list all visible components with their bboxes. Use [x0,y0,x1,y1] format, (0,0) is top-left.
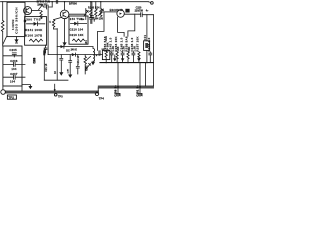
transistor T2 [60,10,69,19]
svg-text:C248 1.0: C248 1.0 [147,37,151,51]
strip box V107 [69,16,88,44]
crystal CF1 [144,41,150,51]
diode V104 on bus [72,53,75,56]
svg-text:R241 100K: R241 100K [25,28,42,32]
varicap VD1 [84,9,89,20]
diode V102 [71,22,87,26]
wire T2 emitter down [64,19,66,43]
capacitor C209 on rail [56,0,57,3]
transistor T3 [117,10,124,17]
terminal TP4 [95,92,98,95]
svg-text:TP2: TP2 [8,96,14,100]
wire top supply rail [1,1,149,3]
wire feed x145 [144,63,146,87]
junction dots top rail [52,1,53,2]
ground under L201 [14,39,18,42]
ground arrow b [122,56,124,58]
ground under C212 [59,72,63,75]
svg-text:R257 10K: R257 10K [136,36,140,52]
svg-text:R244 100: R244 100 [93,18,104,21]
coil L210 [93,47,95,62]
wire step x135 [128,14,135,36]
capacitor C207 [14,75,16,79]
svg-text:DC: DC [66,50,70,53]
trimmer arrow L210 [86,63,91,69]
wire tap x54.7 [54,84,56,91]
diode D201 [39,4,44,9]
wire left border [2,2,4,46]
capacitor C215 above box [90,2,93,24]
capacitor C205 [12,53,16,57]
terminal top right [151,2,154,5]
svg-text:104: 104 [10,80,15,84]
transistor T1 [24,7,32,15]
diode V101 [27,22,45,26]
resistor R205 emitter [52,17,61,29]
node blob x44 [43,50,45,55]
resistor R245 [95,2,97,17]
ground under L210 [91,62,95,65]
resistor R251 [84,55,86,74]
svg-text:C206: C206 [10,59,18,63]
label TP2 [7,95,16,99]
svg-text:C203 390/CH: C203 390/CH [15,7,19,34]
svg-text:104: 104 [11,67,16,71]
svg-text:BF506: BF506 [69,2,77,6]
svg-text:220/1W: 220/1W [135,9,144,12]
wire box to rail [3,86,22,91]
resistor R247 trimmer [100,2,102,17]
svg-text:C216 10K: C216 10K [70,33,84,37]
terminal TP2 circle [1,90,6,95]
shield box L201 [7,2,25,36]
wire feed x140 [139,63,141,97]
svg-text:240 TVS: 240 TVS [70,17,83,21]
wire to rail [51,2,53,7]
wire rail connector [97,88,99,91]
svg-text:240 K: 240 K [71,48,78,51]
wire mid vertical x48 [47,9,49,55]
capacitor C212 [60,55,63,73]
wire T1 collector [32,10,40,12]
box U3 [102,50,109,59]
wire bus y54.6 [48,54,102,56]
resistor R202 [40,11,42,19]
wire coil tail [16,37,18,40]
wire step x117 [118,17,125,36]
capacitor C217 [69,55,72,75]
resistor R243 [90,2,92,17]
svg-text:C208: C208 [34,57,37,63]
junction dot mid rail [54,89,56,91]
resistor R242 [30,39,43,42]
svg-text:C210 104: C210 104 [70,28,84,32]
wire x44 down [43,49,45,81]
capacitor C214 [89,17,92,24]
chassis rail right [98,86,153,88]
svg-text:C21 18: C21 18 [45,63,48,72]
chassis rail left [5,91,98,93]
wire divider row1 [3,55,22,57]
wire to T3 base [103,11,117,13]
ground arrow c [138,56,140,59]
wire stub to ground [22,85,30,87]
svg-text:R252: R252 [100,50,102,56]
wire T2 collector to rail [64,2,66,10]
wire T2 base [69,13,86,15]
capacitor C211 below box [44,45,47,53]
wire row C206 [3,63,25,65]
capacitor C206 [14,62,16,66]
svg-text:C213 18: C213 18 [78,55,80,64]
svg-text:1.0K: 1.0K [67,68,69,73]
svg-text:V106 107B: V106 107B [25,33,42,37]
terminal TP3 [54,93,57,96]
strip box V106 [25,17,47,46]
junction dots mid rail [106,62,107,63]
resistor R246 [73,39,85,42]
ground under C217 [68,75,72,78]
svg-text:TP4: TP4 [99,96,105,100]
svg-text:R248 R24: R248 R24 [88,6,100,9]
capacitor C204 [44,5,53,9]
svg-text:C207: C207 [10,72,18,76]
ground arrow a [114,55,116,59]
wire row C207 [3,76,25,78]
wire feed x118 [117,63,119,97]
node junction on box edge [24,20,26,22]
svg-text:0.02/CH: 0.02/CH [13,19,15,30]
capacitor box left [3,46,22,86]
wire mid tap row [57,46,93,48]
right block rail mid [100,62,154,64]
diode V103 [61,45,64,48]
wire diagonal to border [3,37,7,45]
svg-text:C205: C205 [9,48,17,52]
svg-text:104: 104 [85,40,88,45]
wire T3 out [124,13,140,15]
block 4N [125,9,129,13]
wire x57 down [56,29,58,81]
capacitor C220 [141,13,154,17]
wire right border [152,15,154,87]
resistor R201 on left border [1,21,4,32]
svg-text:BF506 TUN: BF506 TUN [37,1,51,4]
wire bottom shelf [44,79,68,81]
ground under T2 [63,42,67,45]
svg-text:TP3: TP3 [58,95,63,98]
svg-text:390 TVS: 390 TVS [26,18,41,22]
wire step x104 down [98,12,104,51]
